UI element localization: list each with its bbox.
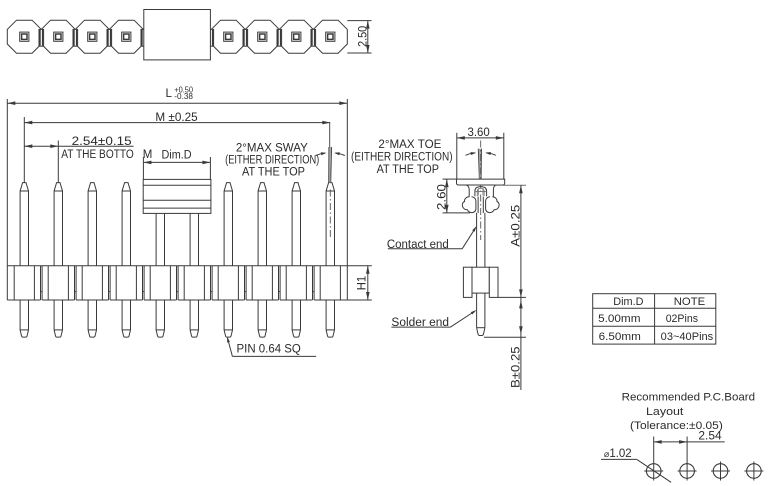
svg-text:2.60: 2.60 [436, 184, 448, 210]
top view insulator octagon 4 [109, 20, 143, 53]
dimension M ±0.25 (pin span) [23, 117, 25, 183]
top view connecting bar 7 [243, 29, 248, 46]
pin 1 upper shaft [20, 183, 28, 266]
svg-text:H1: H1 [356, 276, 368, 290]
pin 10 solder tail [326, 300, 334, 337]
PCB hole 3 [713, 464, 728, 479]
top view pin square 2 [54, 32, 63, 41]
svg-text:2°MAX SWAY: 2°MAX SWAY [236, 143, 308, 155]
top view break rectangle [144, 10, 211, 60]
svg-text:2.54±0.15: 2.54±0.15 [72, 136, 132, 148]
pin 6 under body [189, 213, 191, 265]
base band segment joint 3 [108, 266, 110, 300]
top view connecting bar 5 [175, 29, 180, 46]
base band segment chamfer lines 2 [47, 266, 49, 300]
top view pin square 8 [326, 32, 335, 41]
dimension 2.54±0.15 pitch [57, 141, 59, 183]
base band segment joint 2 [74, 266, 76, 300]
PCB hole 4 [747, 464, 762, 479]
top view insulator octagon 2 [41, 20, 75, 53]
svg-text:(EITHER DIRECTION): (EITHER DIRECTION) [351, 151, 453, 163]
contact top plate [457, 179, 505, 185]
base band segment chamfer lines 1 [13, 266, 15, 300]
contact shaft [476, 213, 478, 267]
pin 10 upper shaft with 2° sway shown [326, 183, 334, 266]
svg-text:⌀1.02: ⌀1.02 [604, 448, 632, 460]
base band segment joint 4 [142, 266, 144, 300]
base band segment chamfer lines 5 [149, 266, 151, 300]
PCB hole 2 [680, 464, 695, 479]
top view: pin header row seen from above [7, 10, 371, 60]
pin 5 under body [155, 213, 157, 265]
svg-text:Dim.D: Dim.D [162, 149, 192, 161]
top view pin square 3 [88, 32, 97, 41]
top view connecting bar 9 [311, 29, 316, 46]
top view pin square 6 [258, 32, 267, 41]
pin 8 solder tail [258, 300, 266, 337]
pin 3 upper shaft [88, 183, 96, 266]
svg-text:B±0.25: B±0.25 [511, 346, 523, 388]
solder tail of contact [476, 293, 478, 328]
svg-text:(EITHER DIRECTION): (EITHER DIRECTION) [225, 155, 319, 167]
top view connecting bar 2 [73, 29, 78, 46]
dimension L +0.50/-0.38 (overall length) [6, 99, 8, 266]
front view: pin header side elevation [7, 86, 372, 357]
svg-text:2.50: 2.50 [357, 26, 369, 47]
pin 8 upper shaft [258, 183, 266, 266]
top view connecting bar 4 [141, 29, 146, 46]
svg-text:M ±0.25: M ±0.25 [155, 112, 197, 124]
pin 9 solder tail [292, 300, 300, 337]
contact spring ear left [462, 197, 476, 213]
svg-text:AT THE TOP: AT THE TOP [242, 167, 305, 179]
top view pin square 4 [122, 32, 131, 41]
svg-text:Dim.D: Dim.D [613, 296, 643, 308]
dimension H1 (base height) [347, 265, 372, 267]
molded body (break section) front view [143, 179, 211, 213]
pin 7 upper shaft [224, 183, 232, 266]
PCB hole 1 [646, 464, 661, 479]
contact crown [475, 187, 487, 197]
base band segment joint 1 [40, 266, 42, 300]
single contact detail view [351, 127, 526, 390]
svg-text:02Pins: 02Pins [666, 313, 699, 325]
top view insulator octagon 7 [279, 20, 313, 53]
pin 4 upper shaft [122, 183, 130, 266]
base band segment chamfer lines 4 [115, 266, 117, 300]
base band segment joint 5 [176, 266, 178, 300]
svg-text:Recommended P.C.Board: Recommended P.C.Board [622, 392, 756, 404]
contact neck [466, 185, 469, 197]
pin 7 solder tail [224, 300, 232, 337]
top view pin square 1 [20, 32, 29, 41]
dimension 3.60 (top plate width) [456, 133, 458, 179]
callout PIN 0.64 SQ [228, 339, 233, 357]
svg-text:03~40Pins: 03~40Pins [661, 331, 714, 343]
pin 1 solder tail [20, 300, 28, 337]
contact spring ear right [486, 197, 500, 213]
base band segment joint 7 [244, 266, 246, 300]
2° toe phantom lines [478, 149, 479, 180]
centerline [480, 141, 482, 241]
base band segment joint 6 [210, 266, 212, 300]
top view connecting bar 6 [209, 29, 214, 46]
svg-text:AT THE BOTTO: AT THE BOTTO [61, 149, 134, 161]
top view insulator octagon 6 [245, 20, 279, 53]
recommended PCB layout [601, 392, 763, 483]
svg-text:2.54: 2.54 [698, 430, 722, 442]
pin 2 solder tail [54, 300, 62, 337]
base band segment chamfer lines 6 [183, 266, 185, 300]
svg-text:M: M [143, 149, 153, 161]
base band segment chamfer lines 8 [251, 266, 253, 300]
top view connecting bar 1 [39, 29, 44, 46]
table Dim.D / NOTE [593, 294, 716, 344]
base band segment chamfer lines 9 [285, 266, 287, 300]
top view insulator octagon 1 [7, 20, 41, 53]
pin 4 solder tail [122, 300, 130, 337]
svg-text:PIN 0.64 SQ: PIN 0.64 SQ [237, 343, 301, 355]
svg-text:6.50mm: 6.50mm [599, 331, 641, 343]
pin 3 solder tail [88, 300, 96, 337]
body block side view [472, 267, 489, 293]
base band segment chamfer lines 10 [319, 266, 321, 300]
top view insulator octagon 5 [211, 20, 245, 53]
top view insulator octagon 8 [313, 20, 347, 53]
base band segment chamfer lines 7 [217, 266, 219, 300]
pin 6 solder tail [190, 300, 198, 337]
dimension 2.60 (contact length) [443, 178, 457, 180]
svg-text:-0.38: -0.38 [174, 92, 193, 101]
top view insulator octagon 3 [75, 20, 109, 53]
top view pin square 7 [292, 32, 301, 41]
svg-text:2°MAX TOE: 2°MAX TOE [378, 139, 441, 151]
svg-text:AT THE TOP: AT THE TOP [377, 164, 440, 176]
base band segment joint 8 [278, 266, 280, 300]
svg-text:NOTE: NOTE [674, 296, 705, 308]
pin 5 solder tail [156, 300, 164, 337]
top view connecting bar 8 [277, 29, 282, 46]
insulator base band front view [7, 265, 347, 267]
dimension B±0.25 [484, 336, 526, 338]
svg-text:5.00mm: 5.00mm [598, 313, 640, 325]
base band segment chamfer lines 3 [81, 266, 83, 300]
pin 9 upper shaft [292, 183, 300, 266]
svg-text:A±0.25: A±0.25 [511, 205, 523, 247]
top view connecting bar 3 [107, 29, 112, 46]
svg-text:3.60: 3.60 [468, 127, 490, 139]
base band segment joint 9 [312, 266, 314, 300]
pin 2 upper shaft [54, 183, 62, 266]
dimension A±0.25 [495, 184, 526, 186]
top view pin square 5 [224, 32, 233, 41]
contact center section [477, 197, 479, 214]
svg-text:L: L [166, 88, 173, 100]
dimension 2.50 (row height) [347, 20, 371, 22]
svg-text:Layout: Layout [646, 406, 683, 418]
